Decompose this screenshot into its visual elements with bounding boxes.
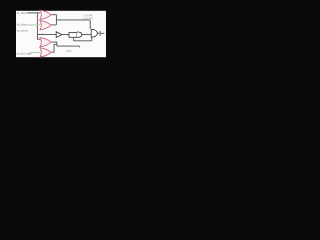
- svg-text:tck_first_edge: tck_first_edge: [17, 52, 33, 55]
- svg-text:t_to_srst: t_to_srst: [83, 17, 93, 20]
- svg-text:t_a1: t_a1: [39, 32, 44, 35]
- svg-text:tdo_offset: tdo_offset: [17, 24, 28, 27]
- svg-text:tdi_offset: tdi_offset: [17, 12, 27, 15]
- svg-text:tbd0: tbd0: [66, 50, 71, 53]
- svg-text:tck_period: tck_period: [17, 29, 29, 32]
